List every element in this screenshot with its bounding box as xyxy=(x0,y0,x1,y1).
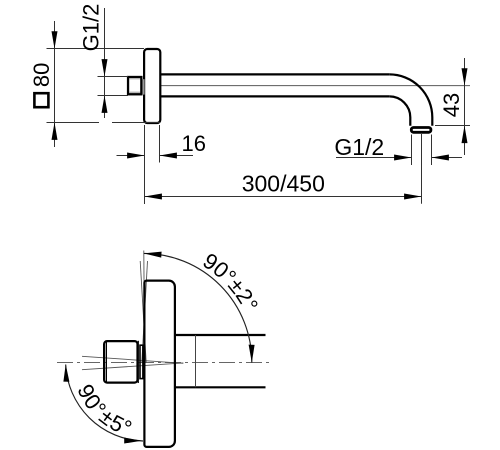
dim G1/2 outlet: extension lines xyxy=(411,135,413,166)
hex nut collar xyxy=(140,345,143,378)
svg-text:16: 16 xyxy=(182,131,206,156)
svg-text:G1/2: G1/2 xyxy=(79,4,104,52)
svg-text:G1/2: G1/2 xyxy=(334,134,384,160)
dim G1/2 outlet: dimension line tails xyxy=(336,157,412,159)
dim sq80: bottom extension line xyxy=(47,122,100,124)
angle tolerance fan: vertical reference line xyxy=(143,251,146,364)
arm tube top edge xyxy=(160,73,389,75)
arc 90+-5: dimension arc xyxy=(66,365,143,442)
outlet thread band G1/2 xyxy=(411,128,431,133)
centerline (dash-dot) xyxy=(57,362,270,364)
arc 90+-2: dimension arc xyxy=(144,253,252,362)
arm tube bottom edge xyxy=(160,95,389,97)
angle tolerance fan: -2 deg line xyxy=(142,261,148,363)
hex nut facet line right xyxy=(137,341,139,383)
elbow inner radius xyxy=(389,96,410,125)
square union nut xyxy=(143,79,145,94)
centerline of arm (thin) xyxy=(146,85,470,87)
svg-text:300/450: 300/450 xyxy=(242,171,325,197)
dim G1/2 wall: extension lines xyxy=(98,76,129,78)
dim sq80: dimension line xyxy=(54,21,56,147)
angle tolerance fan: +2 deg line xyxy=(140,261,146,363)
dim 300/450: extension line at outlet center xyxy=(421,134,423,204)
wall flange (profile) xyxy=(144,281,175,447)
dim sq80: bottom arrow xyxy=(52,123,58,140)
dim 16: extension lines xyxy=(144,125,146,204)
elbow outer radius xyxy=(389,74,432,125)
dim G1/2 wall: arrows xyxy=(102,59,108,76)
arc 90+-5: top arrow xyxy=(63,364,69,382)
dim 43: arrows xyxy=(462,68,468,85)
dim sq80: top extension line xyxy=(47,48,145,50)
dim 43: bottom extension line xyxy=(435,125,470,127)
dim 300/450: arrows xyxy=(145,194,162,200)
arc 90+-5: bottom arrow xyxy=(124,438,141,444)
hex nut body xyxy=(104,341,137,383)
dim 16: arrows xyxy=(127,153,144,159)
svg-text:80: 80 xyxy=(29,63,54,87)
dim 300/450: dimension line xyxy=(145,196,422,198)
hex nut facet line left xyxy=(105,342,107,383)
svg-text:43: 43 xyxy=(439,93,464,117)
arm tube top edge xyxy=(176,334,266,336)
dim 16: dimension line tails xyxy=(117,155,145,157)
tube joint line xyxy=(195,335,197,387)
dim sq80: top arrow xyxy=(52,31,58,48)
arc 90+-2: bottom arrow xyxy=(249,345,255,363)
dim 43: dimension line xyxy=(464,58,466,155)
angle tolerance fan: -5 deg line xyxy=(82,363,183,370)
angle tolerance fan: +5 deg line xyxy=(82,356,183,363)
arc 90+-2: top arrow xyxy=(144,252,162,258)
dim sq80: square symbol xyxy=(34,93,48,107)
dim G1/2 outlet: arrows xyxy=(394,155,411,161)
arm tube bottom edge xyxy=(176,386,266,388)
dim G1/2 wall: dimension line xyxy=(104,8,106,118)
wall flange (side profile) xyxy=(144,49,160,123)
